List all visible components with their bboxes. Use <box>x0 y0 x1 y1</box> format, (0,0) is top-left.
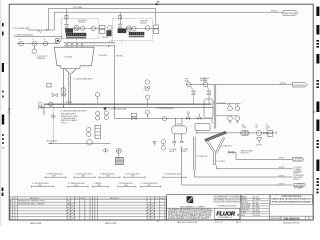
package A lower strip <box>66 37 86 39</box>
svg-text:T. CRUZ: T. CRUZ <box>254 207 260 209</box>
pipe line from left <box>15 35 63 37</box>
hopper outlet cone left <box>65 68 70 73</box>
gate valve on main line <box>39 106 42 109</box>
svg-text:ISSUED FOR CONSTRUCTION: ISSUED FOR CONSTRUCTION <box>18 201 45 203</box>
left edge punch mark <box>2 188 4 192</box>
svg-text:2"-FL-3006: 2"-FL-3006 <box>73 7 82 9</box>
svg-text:31054-B: 31054-B <box>140 22 147 24</box>
vent stack outlet cap <box>213 163 217 165</box>
package B outside bubble <box>108 25 112 29</box>
svg-text:REVISION: REVISION <box>30 198 39 200</box>
svg-text:S. NOOR: S. NOOR <box>254 212 261 214</box>
right edge microfilm bar <box>316 54 319 64</box>
svg-text:2"-CWS-3005: 2"-CWS-3005 <box>221 145 232 147</box>
vent stack right slope <box>215 137 223 153</box>
svg-text:NOTE 7: NOTE 7 <box>279 183 285 185</box>
left edge tick <box>2 147 3 148</box>
svg-text:31-D-004: 31-D-004 <box>99 55 108 57</box>
vessel C-31054 hopper <box>54 47 94 68</box>
border zone tick top label <box>157 1 160 3</box>
svg-text:D. LEE: D. LEE <box>254 202 259 204</box>
bubble pair r4 <box>235 116 240 121</box>
drawing title box <box>270 195 312 204</box>
left edge punch mark <box>2 63 4 72</box>
drum top stub 1 <box>175 118 177 126</box>
left edge punch mark <box>2 32 4 36</box>
svg-text:NOTE 2: NOTE 2 <box>271 11 278 13</box>
svg-text:1"-CWS-31054-3002: 1"-CWS-31054-3002 <box>109 108 127 110</box>
client logo mark <box>187 196 194 203</box>
bottom strip cells <box>281 216 309 220</box>
svg-text:CLIENT: CLIENT <box>241 212 246 214</box>
package B inlet valve <box>118 24 122 28</box>
svg-text:0: 0 <box>309 218 310 220</box>
border zone tick left <box>7 111 9 113</box>
drum top stub 2 <box>181 118 183 126</box>
control valve actuator <box>61 88 65 92</box>
drain valve on dashed leg <box>51 115 56 118</box>
bottom strip divider <box>269 215 313 217</box>
svg-text:LG-054: LG-054 <box>144 90 150 92</box>
junction dot main/center <box>114 107 115 108</box>
right edge microfilm bar <box>316 160 319 172</box>
left edge punch mark <box>2 115 4 125</box>
relief leg A valve <box>191 86 194 90</box>
control valve stem <box>63 68 65 107</box>
local panel <box>95 125 101 138</box>
left edge punch mark <box>2 23 4 26</box>
chute thick bar <box>205 131 227 141</box>
hopper outlet cone right <box>71 68 76 73</box>
svg-text:SCALE NONE: SCALE NONE <box>270 217 282 220</box>
svg-text:10-12-94: 10-12-94 <box>254 215 260 217</box>
border flow arrow <box>8 109 10 112</box>
right edge dot <box>316 192 318 194</box>
drain funnel below blower <box>257 138 262 142</box>
dashed instrument leg <box>52 107 54 143</box>
revision table column lines right half <box>90 197 165 220</box>
svg-text:DESIGN: DESIGN <box>241 199 247 201</box>
branch down to mixer box <box>211 118 213 123</box>
gauge bubble left of drum <box>161 139 165 143</box>
drum outlet valve 1 <box>173 134 175 141</box>
bubble right of header <box>162 117 166 121</box>
right edge microfilm dash group <box>316 140 319 142</box>
svg-text:DWG 31055: DWG 31055 <box>284 13 297 15</box>
valve before box <box>264 132 267 134</box>
svg-text:054: 054 <box>255 126 258 128</box>
FLUOR logo box <box>215 208 240 219</box>
right edge microfilm bar <box>316 25 319 35</box>
bubble pair r1 <box>228 106 233 111</box>
package A drain dashes <box>75 39 77 43</box>
drum D-31054 <box>172 126 187 134</box>
hopper drain downcomer <box>68 73 70 104</box>
vent stub 3 <box>76 46 78 47</box>
svg-text:0: 0 <box>10 201 11 203</box>
svg-text:PIPING AND INSTRUMENTATION DIA: PIPING AND INSTRUMENTATION DIAGRAM <box>272 200 311 203</box>
package B bubble <box>145 26 150 31</box>
package B small circle <box>132 27 136 31</box>
svg-text:DWG 31056: DWG 31056 <box>294 85 306 87</box>
revision table outline <box>10 197 167 220</box>
package B filter box <box>118 29 127 34</box>
revision table header fill <box>10 197 167 200</box>
drain line C from mixer <box>194 170 292 177</box>
svg-text:2"-FL-31054-3003: 2"-FL-31054-3003 <box>13 28 31 30</box>
relief leg B bubble <box>203 82 208 87</box>
svg-text:NOTE 4: NOTE 4 <box>293 179 299 181</box>
package A skid boundary <box>61 19 99 39</box>
svg-text:CADD FILE: P31054.DGN: CADD FILE: P31054.DGN <box>177 221 198 224</box>
right edge microfilm bar <box>316 7 319 16</box>
package A filter box <box>65 28 73 32</box>
svg-text:PROC ENGR: PROC ENGR <box>241 204 251 206</box>
package B aux box 1 <box>154 25 159 28</box>
border zone tick right <box>313 111 315 113</box>
gauge near hopper <box>95 93 99 97</box>
left arrow on lower line <box>49 143 52 145</box>
package B riser <box>119 12 121 24</box>
bubble pair a1 <box>96 111 100 115</box>
package A inlet valve <box>65 24 69 28</box>
svg-text:2"-CWS-054: 2"-CWS-054 <box>196 156 207 158</box>
drain line A <box>228 152 293 159</box>
svg-text:CHECKED: CHECKED <box>241 202 249 204</box>
hatch marks right half <box>147 202 151 220</box>
gauge bubble left of drum lower <box>161 146 165 150</box>
divider above disclaimers <box>167 207 241 209</box>
package A small circle <box>81 26 85 30</box>
drain line D from drum <box>182 146 293 185</box>
standalone gauge stack at x147 <box>145 80 149 84</box>
title block outline <box>167 195 314 220</box>
svg-text:REVISION: REVISION <box>110 198 119 200</box>
svg-text:NOTE 6: NOTE 6 <box>116 56 123 58</box>
svg-text:PLOT 1=1: PLOT 1=1 <box>215 222 223 224</box>
vent stub 4 <box>81 46 83 47</box>
strainer capsule on skid line <box>241 131 249 136</box>
package A blower circle <box>74 26 79 31</box>
hatch marks left half <box>67 202 71 220</box>
revision table row lines <box>10 199 167 216</box>
local gauge box <box>115 157 123 164</box>
svg-text:REV 0: REV 0 <box>236 222 241 224</box>
relief leg A bubble <box>186 82 191 87</box>
svg-text:MATCH LINE: MATCH LINE <box>30 222 42 225</box>
svg-text:PROJ ENGR: PROJ ENGR <box>241 207 251 209</box>
package B discharge line <box>126 28 154 30</box>
vent valve 4 <box>81 44 83 46</box>
package B skid boundary <box>113 18 153 40</box>
svg-text:B. KING: B. KING <box>254 210 260 212</box>
svg-text:REVISED PER FIELD CHANGE: REVISED PER FIELD CHANGE <box>18 203 45 206</box>
pipe line top L2 <box>54 12 283 30</box>
right edge microfilm dash group <box>316 178 319 180</box>
svg-text:NOTE 2: NOTE 2 <box>103 37 109 39</box>
svg-text:STATION: STATION <box>37 57 46 60</box>
riser to pump <box>61 36 63 39</box>
title block divider sig/title <box>268 195 270 220</box>
vent stub 2 <box>71 46 73 47</box>
off-page connector flag top right <box>283 11 298 16</box>
line break mark <box>38 30 42 32</box>
downcomer from mixer <box>193 137 195 171</box>
instrument bubble lower <box>32 49 37 54</box>
trunk stub to bubbles 2 <box>216 115 238 117</box>
vent valve 3 <box>76 44 78 46</box>
svg-text:SAUDI ARABIAN OIL COMPANY: SAUDI ARABIAN OIL COMPANY <box>180 205 206 208</box>
svg-text:NOTE 3: NOTE 3 <box>65 102 72 104</box>
svg-text:FLUOR: FLUOR <box>216 211 235 217</box>
pump P-31054 <box>55 38 60 43</box>
junction dot main/cv <box>63 107 64 108</box>
tank outlet line <box>213 101 214 103</box>
package A bubble <box>91 26 96 31</box>
signature table rows <box>241 198 270 216</box>
left edge dot <box>2 142 4 144</box>
left edge dot <box>2 134 4 136</box>
instrument bubble TI <box>32 41 37 46</box>
svg-text:NOTE 9: NOTE 9 <box>256 145 262 147</box>
vent header lower line <box>64 45 115 47</box>
svg-text:OR DISCLOSED WITHOUT PERMISSIO: OR DISCLOSED WITHOUT PERMISSION. <box>213 201 243 203</box>
paper left edge shadow <box>0 0 1 226</box>
svg-text:MATCH LINE: MATCH LINE <box>105 222 117 225</box>
package A riser <box>66 9 68 25</box>
package A riser relief box <box>65 15 68 19</box>
vent stack barrel <box>213 153 215 165</box>
left edge dot <box>2 96 4 98</box>
drum outlet valve 2 <box>181 134 183 141</box>
revision table column lines left half <box>13 197 85 220</box>
svg-text:1: 1 <box>10 204 11 206</box>
instrument bubble PI <box>19 41 24 46</box>
spec break triangle <box>103 108 107 111</box>
sample valve a <box>52 93 58 97</box>
svg-text:NOTE 5: NOTE 5 <box>279 175 285 177</box>
svg-text:HOLD 1: HOLD 1 <box>61 122 68 124</box>
border zone tick bottom <box>157 220 159 222</box>
instrument bubble FI <box>43 41 48 46</box>
svg-text:NOTE 8: NOTE 8 <box>200 80 207 82</box>
package B riser relief box <box>119 15 122 19</box>
main cooling water return line <box>40 106 213 108</box>
flow element circle <box>49 102 53 106</box>
bubble pair a2 <box>96 116 100 120</box>
svg-text:TO SEWER: TO SEWER <box>294 188 304 190</box>
line end tick <box>275 132 277 134</box>
bubble near box <box>116 149 121 154</box>
right edge microfilm dash group <box>316 40 319 42</box>
package A equipment strip <box>66 33 86 37</box>
relief leg B valve <box>207 86 209 90</box>
package B blower circle <box>126 26 131 31</box>
right edge microfilm bar <box>316 120 319 132</box>
butterfly valve 1 <box>186 117 190 119</box>
left edge dot <box>2 91 4 93</box>
svg-text:D-054: D-054 <box>177 124 182 126</box>
title block divider logo/sig <box>240 195 242 220</box>
svg-text:J. DOE: J. DOE <box>254 197 259 199</box>
off-page connector flag right mid <box>293 82 308 87</box>
svg-text:1"-VT-3007: 1"-VT-3007 <box>216 161 225 163</box>
check valve box <box>268 131 273 137</box>
small valve on drain A <box>229 151 234 153</box>
small drain funnel mid <box>153 142 156 144</box>
drain A end label <box>293 157 305 161</box>
right edge microfilm bar <box>316 102 319 113</box>
stub drop at line start <box>43 105 45 115</box>
inlet line from left label <box>28 29 55 31</box>
sample box <box>47 84 51 87</box>
instrument above valve <box>39 102 43 106</box>
relief header line <box>186 84 293 86</box>
svg-text:NOTE 7: NOTE 7 <box>170 151 176 153</box>
bubble pair r3 <box>228 116 233 121</box>
vent trunk <box>213 85 215 129</box>
vent stack left slope <box>207 141 214 152</box>
package B aux box 2 <box>154 29 159 34</box>
lower water line <box>48 142 110 144</box>
flow arrow on inlet line <box>46 29 49 31</box>
control valve with positioner <box>131 113 136 116</box>
package A aux box 1 <box>100 26 106 29</box>
skid line right <box>197 132 276 134</box>
bubble on header <box>145 110 149 114</box>
valve below r4 <box>236 121 238 123</box>
right edge microfilm dash group <box>316 80 319 82</box>
package A aux box 2 <box>100 29 106 33</box>
svg-text:31054-A: 31054-A <box>78 21 85 24</box>
mixer box stub <box>196 131 198 135</box>
bubble stack c2 <box>87 132 91 136</box>
left edge dot <box>2 138 4 140</box>
header flow arrow <box>108 45 111 47</box>
package B lower strip <box>129 36 145 37</box>
svg-text:NOTE 5: NOTE 5 <box>279 158 285 160</box>
right edge dot <box>316 189 318 191</box>
svg-text:2"-CWS-31054-3018: 2"-CWS-31054-3018 <box>164 174 181 176</box>
svg-text:CONTRACT NO. 605843: CONTRACT NO. 605843 <box>217 204 236 207</box>
drain elbow to horizontal <box>44 103 212 105</box>
drain line B from stack <box>216 166 292 169</box>
bubble stack c1 <box>87 127 91 131</box>
vent stub 1 <box>66 46 68 47</box>
svg-text:2"-CWR-31054-3001: 2"-CWR-31054-3001 <box>156 108 174 110</box>
blower circle <box>256 130 261 135</box>
bubble pair r2 <box>235 106 240 111</box>
svg-text:NOTE 5: NOTE 5 <box>280 83 287 85</box>
instrument air header <box>17 43 57 45</box>
valve below r3 <box>229 121 231 123</box>
trunk stub to bubbles 1 <box>216 102 241 104</box>
svg-text:NOTE 5: NOTE 5 <box>279 167 285 169</box>
bubble pair b1 <box>104 111 108 115</box>
svg-text:(NOTE 9): (NOTE 9) <box>241 153 249 155</box>
pipe line top L1 <box>49 9 156 31</box>
package B outside box <box>106 30 111 36</box>
butterfly valve 2 <box>198 117 202 119</box>
svg-text:1"-CWS-31054-3002: 1"-CWS-31054-3002 <box>73 78 93 80</box>
silencer tank <box>204 99 213 118</box>
angle valve lower <box>102 149 108 153</box>
control valve body <box>61 93 65 96</box>
svg-text:CARBON AND VACUUM UNITS PHASE: CARBON AND VACUUM UNITS PHASE NO. 2 <box>271 198 311 201</box>
svg-text:DB-950243 SH 001: DB-950243 SH 001 <box>283 222 299 224</box>
svg-text:DWG 31057: DWG 31057 <box>293 160 302 162</box>
border zone arrow top <box>156 3 160 5</box>
svg-text:2"-VT: 2"-VT <box>109 41 113 43</box>
svg-text:R. SMITH: R. SMITH <box>254 199 261 201</box>
package A discharge line <box>73 27 100 29</box>
svg-text:N.C.: N.C. <box>266 128 270 130</box>
svg-text:A PROCESS DIVISION: A PROCESS DIVISION <box>281 195 302 198</box>
bubble pair b2 <box>104 115 108 119</box>
package B equipment strip <box>129 32 145 35</box>
package B drain dashes <box>121 41 123 45</box>
svg-text:C-31054: C-31054 <box>64 56 73 58</box>
mixer box <box>195 124 210 131</box>
svg-text:DB-950243: DB-950243 <box>284 217 300 221</box>
lower header line <box>115 117 213 119</box>
svg-text:2"-CWR-31054-3001 (NOTE 3): 2"-CWR-31054-3001 (NOTE 3) <box>60 110 87 112</box>
center downcomer <box>114 45 116 119</box>
vent header upper line <box>64 42 115 44</box>
drain D end flag <box>294 183 306 187</box>
svg-text:3/4"-IA-3009: 3/4"-IA-3009 <box>47 140 58 143</box>
inline instrument circle <box>87 140 92 145</box>
left edge punch mark <box>2 193 4 196</box>
vent valve 1 <box>66 44 68 46</box>
vent valve 2 <box>71 44 73 46</box>
